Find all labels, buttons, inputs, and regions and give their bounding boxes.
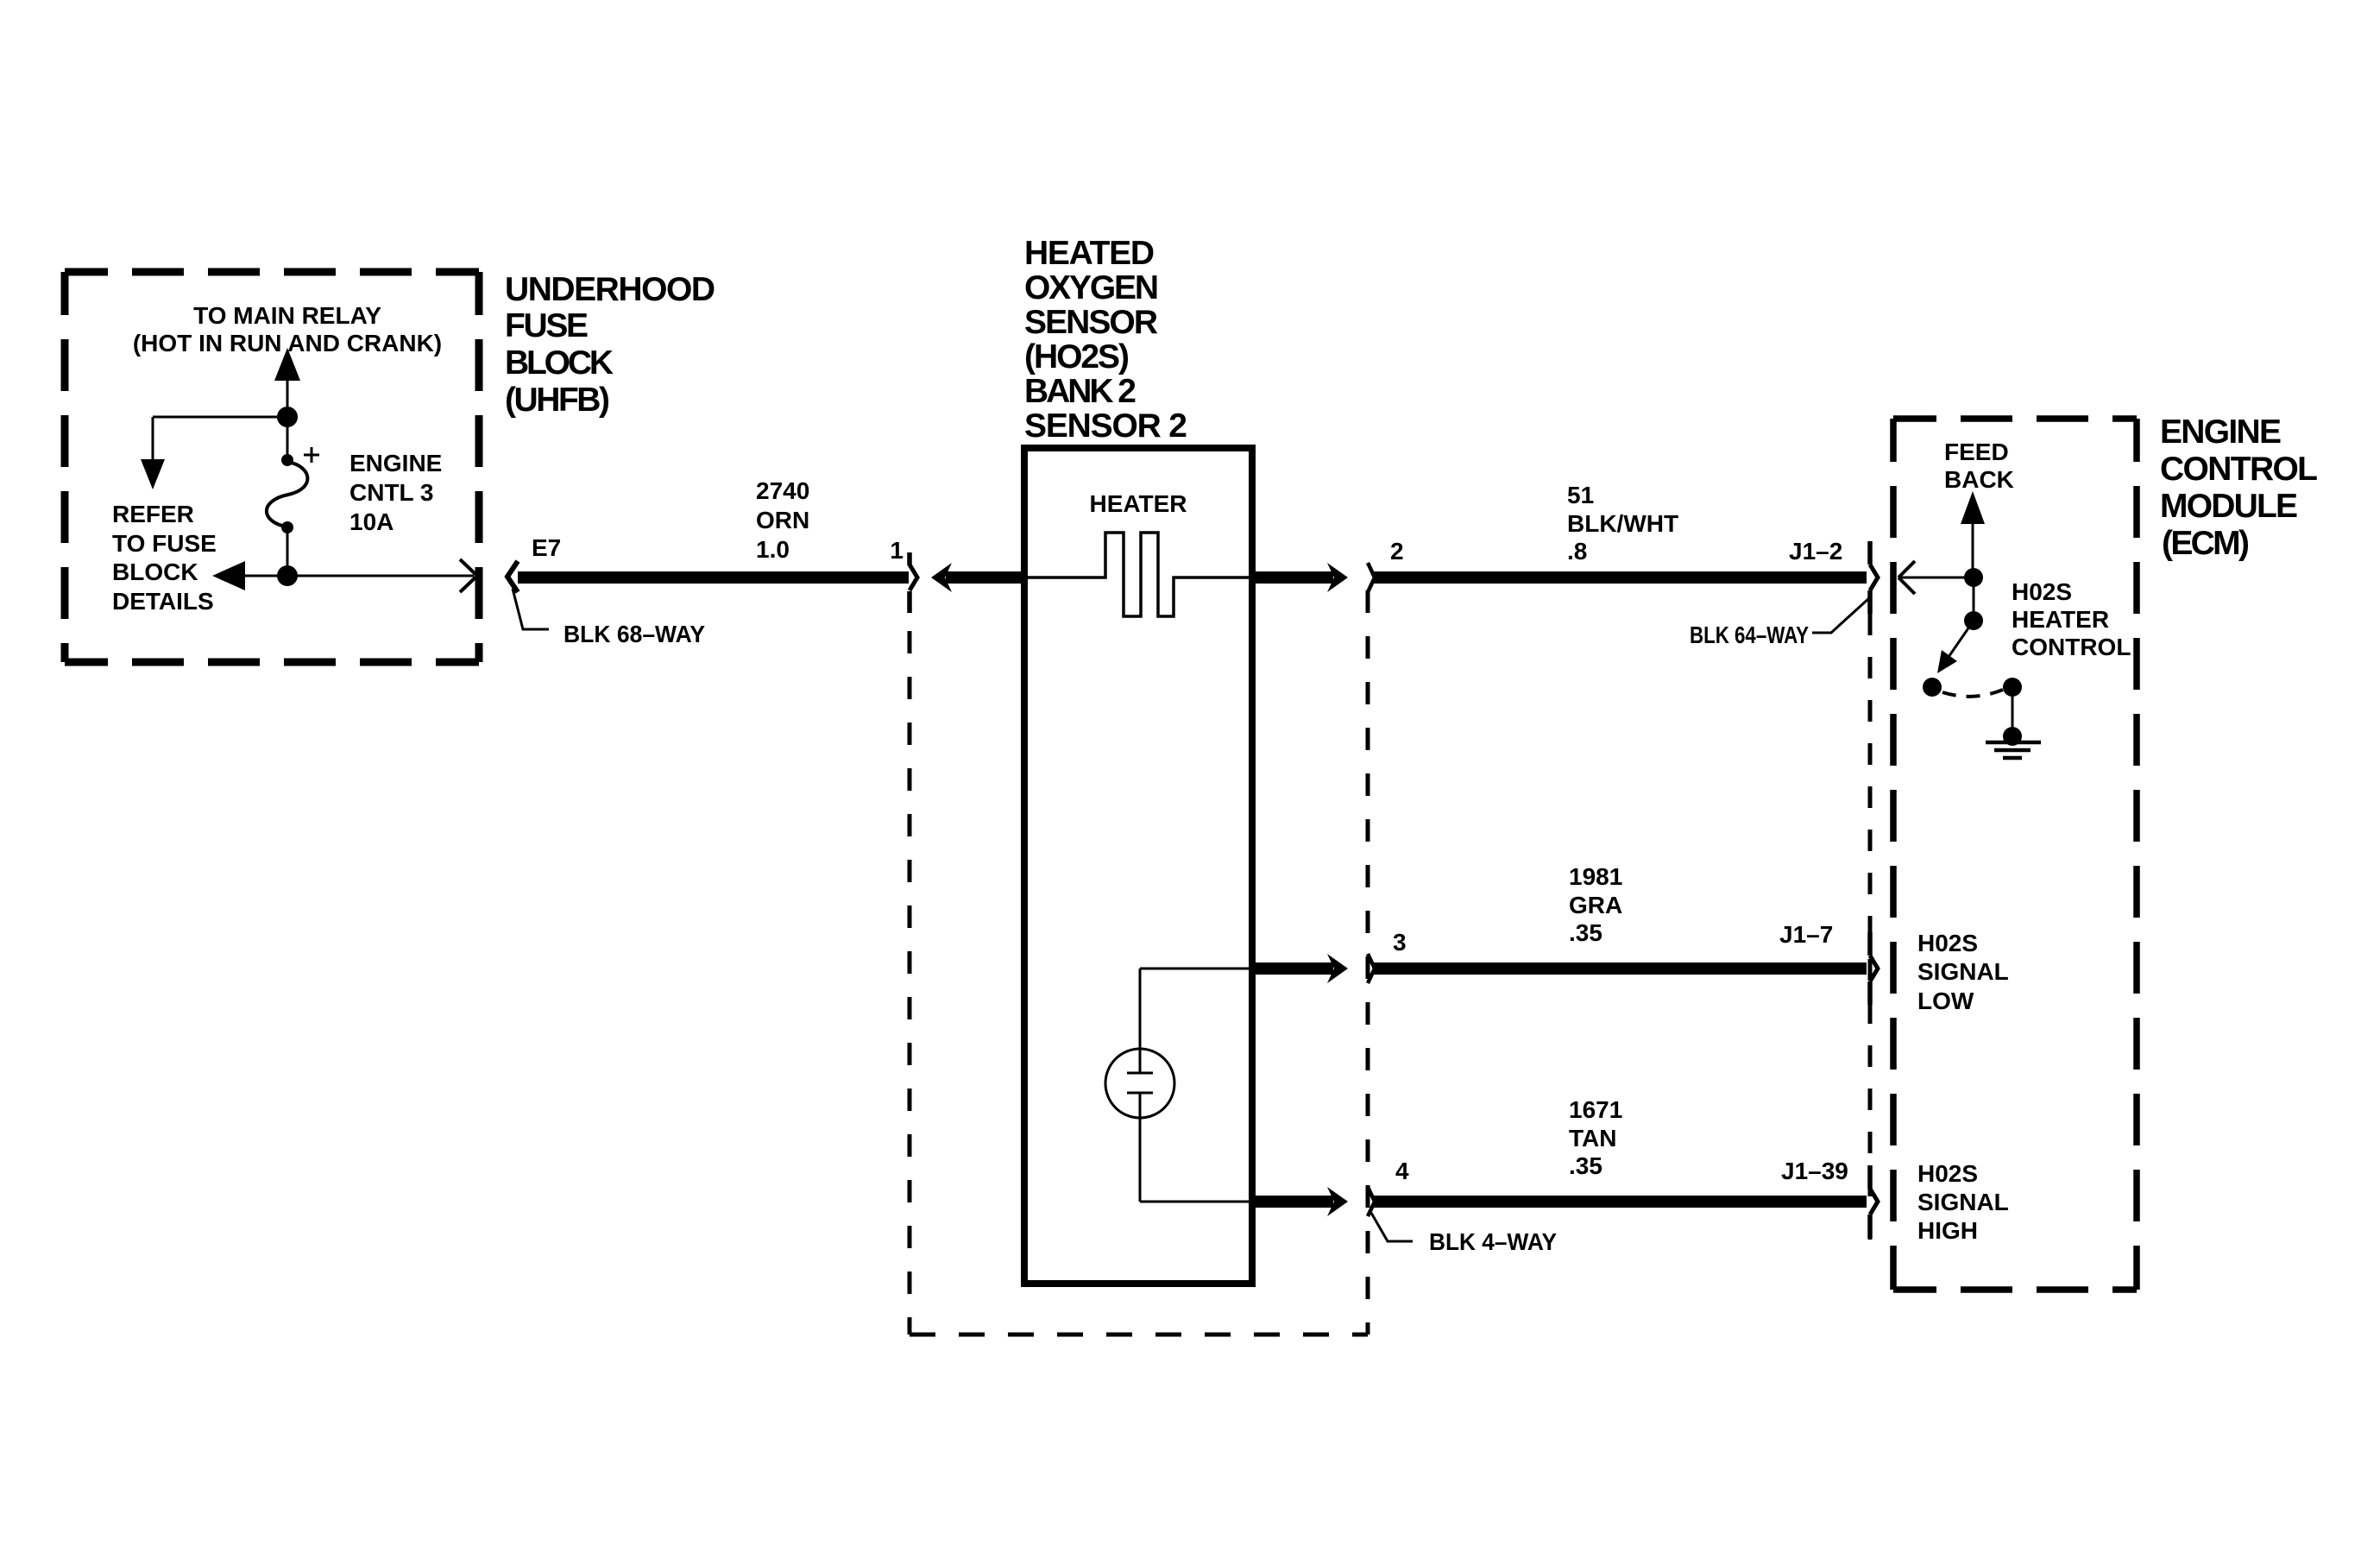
svg-text:E7: E7 — [532, 534, 561, 561]
svg-text:(HOT IN RUN AND CRANK): (HOT IN RUN AND CRANK) — [133, 330, 442, 357]
svg-text:4: 4 — [1395, 1158, 1409, 1184]
svg-text:3: 3 — [1393, 929, 1407, 956]
svg-text:OXYGEN: OXYGEN — [1024, 269, 1159, 306]
svg-text:BLOCK: BLOCK — [505, 344, 614, 382]
svg-text:HIGH: HIGH — [1917, 1217, 1978, 1244]
svg-text:SIGNAL: SIGNAL — [1917, 958, 2009, 985]
svg-text:BANK 2: BANK 2 — [1024, 373, 1136, 410]
svg-text:2740: 2740 — [756, 477, 809, 504]
svg-text:J1–39: J1–39 — [1781, 1158, 1848, 1184]
svg-text:CONTROL: CONTROL — [2012, 634, 2131, 660]
svg-text:10A: 10A — [349, 508, 394, 535]
svg-text:(UHFB): (UHFB) — [505, 382, 610, 419]
svg-text:ENGINE: ENGINE — [2160, 413, 2282, 451]
svg-text:.8: .8 — [1567, 538, 1587, 565]
svg-text:HEATED: HEATED — [1024, 235, 1155, 272]
svg-text:51: 51 — [1567, 482, 1594, 508]
svg-text:SIGNAL: SIGNAL — [1917, 1189, 2009, 1215]
svg-text:BLK 68–WAY: BLK 68–WAY — [564, 621, 705, 647]
svg-text:(ECM): (ECM) — [2162, 525, 2250, 562]
svg-text:2: 2 — [1390, 538, 1404, 565]
svg-text:(HO2S): (HO2S) — [1024, 338, 1130, 375]
svg-text:FUSE: FUSE — [505, 307, 589, 344]
svg-text:1: 1 — [890, 537, 904, 564]
svg-text:CONTROL: CONTROL — [2160, 451, 2318, 488]
svg-text:H02S: H02S — [1917, 1160, 1978, 1187]
svg-text:GRA: GRA — [1569, 892, 1622, 918]
svg-text:SENSOR 2: SENSOR 2 — [1024, 407, 1187, 445]
svg-text:SENSOR: SENSOR — [1024, 304, 1158, 341]
svg-text:HEATER: HEATER — [1089, 490, 1187, 517]
svg-text:.35: .35 — [1569, 919, 1602, 946]
svg-text:BLK 64–WAY: BLK 64–WAY — [1690, 622, 1809, 648]
svg-text:HEATER: HEATER — [2012, 606, 2109, 633]
svg-text:J1–2: J1–2 — [1789, 538, 1842, 565]
svg-text:TO MAIN RELAY: TO MAIN RELAY — [193, 302, 381, 329]
svg-text:MODULE: MODULE — [2160, 488, 2298, 525]
svg-text:BLK 4–WAY: BLK 4–WAY — [1429, 1228, 1557, 1255]
svg-text:BACK: BACK — [1944, 466, 2014, 493]
svg-text:J1–7: J1–7 — [1779, 921, 1833, 948]
svg-text:ORN: ORN — [756, 507, 809, 533]
svg-text:H02S: H02S — [1917, 930, 1978, 956]
svg-text:TO FUSE: TO FUSE — [112, 530, 217, 557]
svg-text:LOW: LOW — [1917, 988, 1974, 1014]
svg-text:REFER: REFER — [112, 501, 194, 527]
svg-text:CNTL 3: CNTL 3 — [349, 479, 434, 506]
svg-text:1.0: 1.0 — [756, 536, 790, 563]
svg-text:1981: 1981 — [1569, 863, 1622, 890]
svg-text:BLK/WHT: BLK/WHT — [1567, 510, 1678, 537]
svg-text:1671: 1671 — [1569, 1096, 1622, 1123]
svg-text:TAN: TAN — [1569, 1125, 1616, 1152]
svg-text:FEED: FEED — [1944, 439, 2009, 465]
svg-text:.35: .35 — [1569, 1152, 1602, 1179]
svg-text:H02S: H02S — [2012, 578, 2072, 605]
svg-text:DETAILS: DETAILS — [112, 588, 214, 615]
svg-text:ENGINE: ENGINE — [349, 450, 442, 476]
svg-text:BLOCK: BLOCK — [112, 558, 198, 585]
svg-text:UNDERHOOD: UNDERHOOD — [505, 271, 715, 308]
